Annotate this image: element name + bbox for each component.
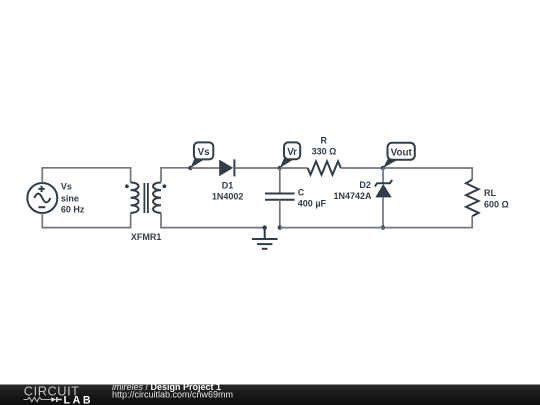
diode D1 [219, 159, 234, 176]
svg-text:LAB: LAB [64, 395, 94, 405]
wire transformer secondary top to node Vs [161, 168, 190, 183]
junction capacitor on bottom rail [278, 225, 282, 229]
svg-text:R: R [320, 136, 327, 146]
logo circuit glyph [24, 397, 52, 401]
svg-text:D1: D1 [222, 180, 234, 190]
junction ground on bottom rail [263, 225, 267, 229]
svg-text:D2: D2 [359, 180, 371, 190]
svg-text:RL: RL [484, 188, 496, 198]
capacitor C [265, 194, 295, 200]
zener diode D2 [375, 180, 392, 197]
node Vs flag [190, 142, 213, 168]
svg-text:1N4002: 1N4002 [212, 192, 244, 202]
transformer XFMR1 [125, 183, 166, 214]
svg-text:400 µF: 400 µF [298, 199, 327, 209]
wire capacitor C to bottom rail [279, 200, 281, 228]
svg-text:330 Ω: 330 Ω [312, 146, 337, 156]
wire node Vr to resistor R [280, 167, 308, 169]
junction node Vr [278, 166, 282, 170]
wire zener D2 to bottom rail [382, 197, 384, 227]
resistor RL [466, 180, 479, 217]
wire resistor RL to bottom rail [383, 216, 472, 227]
svg-text:http://circuitlab.com/cnw69mm: http://circuitlab.com/cnw69mm [112, 389, 233, 399]
svg-text:600 Ω: 600 Ω [484, 199, 509, 209]
svg-text:Vs: Vs [198, 147, 211, 158]
junction node Vout [381, 166, 385, 170]
wire transformer secondary bottom to ground junction [161, 213, 265, 228]
wire resistor R to node Vout [341, 167, 383, 169]
svg-text:Vs: Vs [61, 182, 72, 192]
svg-text:1N4742A: 1N4742A [333, 191, 372, 201]
junction zener on bottom rail [381, 225, 385, 229]
node Vout flag [383, 143, 415, 168]
footer bar [0, 385, 540, 405]
voltage source VS [27, 183, 57, 213]
wire node Vr down to capacitor C [279, 168, 281, 193]
wire node Vout down to zener D2 [382, 168, 384, 183]
wire node Vs to diode D1 [190, 167, 219, 169]
svg-text:Vr: Vr [287, 147, 297, 158]
svg-text:sine: sine [61, 193, 79, 203]
svg-text:XFMR1: XFMR1 [131, 232, 162, 242]
ground [252, 228, 278, 249]
node Vr flag [280, 142, 300, 168]
wire source bottom to transformer primary [42, 213, 130, 228]
wire diode D1 to node Vr [234, 167, 279, 169]
svg-text:C: C [298, 187, 305, 197]
label Vs sine 60 Hz [61, 182, 85, 215]
wire source top to transformer primary [42, 168, 130, 183]
logo diode glyph [51, 397, 61, 402]
junction node Vs [188, 166, 192, 170]
svg-text:Vout: Vout [391, 147, 413, 158]
wire bottom rail capacitor to zener [280, 227, 383, 229]
svg-text:60 Hz: 60 Hz [61, 204, 85, 214]
resistor R [308, 161, 341, 174]
wire node Vout to resistor RL [383, 168, 472, 180]
